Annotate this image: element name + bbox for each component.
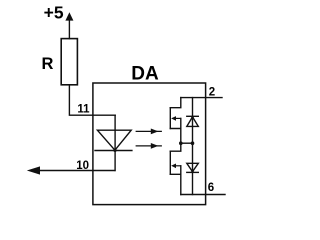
junction dot VD2 apex bbox=[191, 171, 194, 174]
diode VD2 body diode triangle bbox=[187, 163, 199, 171]
transistor Q1 top MOSFET drain lead bbox=[170, 98, 181, 108]
diode VD1 body diode triangle bbox=[187, 117, 199, 127]
LED anode/cathode wire (vertical through LED) bbox=[114, 115, 116, 170]
transistor Q2 source lead bbox=[170, 166, 181, 195]
diode VD2 cathode bar bbox=[187, 171, 199, 173]
svg-text:DA: DA bbox=[131, 64, 159, 85]
svg-text:+5: +5 bbox=[44, 3, 64, 23]
light arrow 1 bbox=[136, 130, 161, 132]
mid node wire between Q1 and Q2 sources bbox=[181, 142, 193, 144]
transistor Q2 bottom MOSFET drain lead bbox=[170, 143, 181, 151]
wire diode rail bbox=[192, 98, 194, 195]
optocoupler DA box bbox=[93, 83, 206, 205]
LED cathode bar bbox=[95, 150, 132, 152]
transistor Q1 source lead bbox=[170, 118, 181, 143]
svg-text:2: 2 bbox=[209, 87, 215, 99]
wire pin 6 bbox=[181, 194, 225, 196]
svg-text:11: 11 bbox=[77, 104, 90, 116]
diode VD1 cathode bar bbox=[187, 115, 199, 117]
pin 10 arrowhead bbox=[27, 166, 40, 174]
+5 supply arrow bbox=[65, 12, 73, 20]
junction dot VD1 apex bbox=[191, 116, 194, 119]
transistor Q2 substrate arrow bbox=[174, 165, 181, 167]
svg-text:10: 10 bbox=[76, 160, 89, 172]
wire +5 arrow to resistor R bbox=[68, 20, 70, 39]
resistor R bbox=[61, 39, 77, 85]
transistor Q1 channel bbox=[169, 108, 171, 129]
LED emitter diode triangle bbox=[97, 130, 131, 150]
transistor Q1 substrate arrow bbox=[174, 117, 181, 119]
wire pin 10 output bbox=[40, 170, 115, 172]
transistor Q2 channel bbox=[169, 151, 171, 174]
light arrow 2 bbox=[136, 145, 161, 147]
wire pin 2 bbox=[181, 97, 222, 99]
junction dot left bbox=[179, 141, 183, 145]
svg-text:6: 6 bbox=[208, 182, 214, 194]
wire resistor R to pin 11 of DA bbox=[69, 85, 115, 115]
junction dot right bbox=[191, 141, 195, 145]
svg-text:R: R bbox=[42, 55, 54, 73]
junction dot at LED apex bbox=[113, 149, 116, 152]
